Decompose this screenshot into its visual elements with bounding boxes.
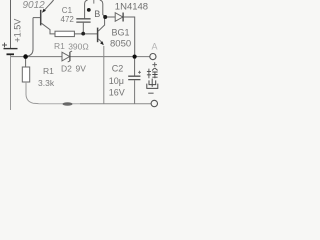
svg-text:10μ: 10μ: [109, 76, 124, 86]
svg-text:C1: C1: [62, 6, 73, 15]
svg-text:A: A: [152, 42, 158, 52]
svg-text:390Ω: 390Ω: [68, 42, 89, 52]
svg-text:D2: D2: [61, 64, 72, 74]
svg-text:R1: R1: [54, 41, 65, 51]
svg-text:B: B: [94, 9, 100, 19]
svg-text:+1.5V: +1.5V: [13, 19, 23, 43]
svg-text:C2: C2: [112, 64, 124, 74]
svg-text:472: 472: [61, 15, 75, 24]
svg-text:1N4148: 1N4148: [115, 1, 148, 12]
svg-text:8050: 8050: [110, 39, 131, 50]
svg-text:16V: 16V: [109, 88, 125, 98]
svg-text:9V: 9V: [76, 64, 87, 74]
svg-text:R1: R1: [43, 66, 54, 76]
svg-text:9012: 9012: [23, 0, 46, 11]
svg-text:3.3k: 3.3k: [38, 78, 55, 88]
svg-text:BG1: BG1: [112, 28, 130, 38]
